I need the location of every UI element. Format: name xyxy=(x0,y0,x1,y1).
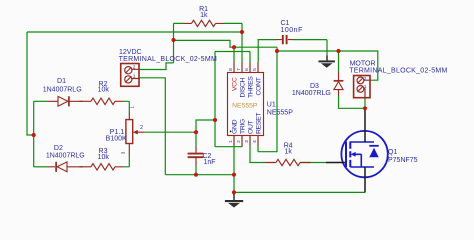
wire OUT to R4 xyxy=(250,146,266,163)
wire CONT / C1 left xyxy=(258,40,276,63)
svg-text:MOTOR: MOTOR xyxy=(350,60,376,67)
junction gnd/source wire xyxy=(232,190,236,194)
svg-text:CONT: CONT xyxy=(256,77,263,95)
junction D3 cathode xyxy=(336,49,340,53)
svg-text:D2: D2 xyxy=(54,145,63,152)
U1 pin stubs bottom xyxy=(234,136,258,147)
svg-text:NE555P: NE555P xyxy=(267,110,293,117)
svg-text:3: 3 xyxy=(244,140,250,143)
svg-text:TERMINAL_BLOCK_02-5MM: TERMINAL_BLOCK_02-5MM xyxy=(119,56,217,63)
wire R2 to pot top xyxy=(123,101,129,112)
wire R1 left lead drop xyxy=(174,23,184,63)
diode D2 xyxy=(47,166,83,168)
ground near C1 xyxy=(326,56,328,61)
svg-text:D1: D1 xyxy=(57,78,66,85)
wire D2-R3 link xyxy=(80,166,84,168)
svg-text:100nF: 100nF xyxy=(281,27,303,34)
wire VCC drop to pin8 xyxy=(233,47,235,62)
svg-text:10k: 10k xyxy=(98,154,110,161)
wire D3 cathode riser xyxy=(338,51,340,72)
resistor R1 xyxy=(192,20,216,26)
svg-text:5: 5 xyxy=(252,68,258,71)
wire C1 right to gnd xyxy=(293,40,328,56)
wire D3 anode to drain node xyxy=(339,96,366,108)
U1 anchor dot xyxy=(230,131,232,133)
junction wiper/C2 xyxy=(194,130,198,134)
wire VCC line xyxy=(174,40,278,47)
svg-text:1k: 1k xyxy=(284,149,292,156)
svg-text:3: 3 xyxy=(121,151,126,154)
junction C2/gnd rail xyxy=(194,173,198,177)
potentiometer P1.1 xyxy=(126,120,133,144)
svg-text:GND: GND xyxy=(232,119,239,134)
wire D2 branch left xyxy=(34,166,47,168)
svg-text:P75NF75: P75NF75 xyxy=(388,157,418,164)
wire left vertical from top rail xyxy=(27,32,34,135)
diode D1 xyxy=(47,100,83,102)
svg-text:1: 1 xyxy=(130,106,135,109)
diode D3 xyxy=(338,72,340,97)
svg-text:2: 2 xyxy=(140,125,143,131)
svg-text:2: 2 xyxy=(133,64,136,70)
junction drain node xyxy=(363,106,367,110)
junction RESET riser xyxy=(275,49,279,53)
svg-text:U1: U1 xyxy=(267,102,276,109)
junction gnd rail/pin1 xyxy=(232,173,236,177)
svg-text:1k: 1k xyxy=(200,12,208,19)
junction wiper riser xyxy=(213,118,217,122)
wire gnd bottom rail xyxy=(165,174,234,176)
svg-text:1N4007RLG: 1N4007RLG xyxy=(43,86,82,93)
svg-text:1N4007RLG: 1N4007RLG xyxy=(46,153,85,160)
svg-text:6: 6 xyxy=(244,68,250,71)
wire R4 to gate xyxy=(300,162,326,164)
terminal block 12VDC xyxy=(121,64,139,87)
svg-text:VCC: VCC xyxy=(232,77,239,91)
wire terminal pin1 to gnd rail xyxy=(140,78,165,175)
wire R1 right lead drop / DISCH pin7 xyxy=(224,23,243,62)
wire DISCH top rail xyxy=(27,31,242,33)
svg-text:THRES: THRES xyxy=(248,76,255,98)
wire C2 bottom link xyxy=(195,166,197,175)
wire 12V+ staircase to terminal pin2 xyxy=(140,63,174,70)
op-amp U1 NE555P box xyxy=(228,73,264,136)
svg-text:1N4007RLG: 1N4007RLG xyxy=(292,90,331,97)
wire D1-R2 link xyxy=(80,100,84,102)
svg-text:TERMINAL_BLOCK_02-5MM: TERMINAL_BLOCK_02-5MM xyxy=(349,67,447,74)
svg-text:2: 2 xyxy=(364,76,367,82)
svg-text:4: 4 xyxy=(252,140,258,143)
resistor R3 xyxy=(91,164,115,170)
junction VCC pin8 xyxy=(232,45,236,49)
svg-text:10k: 10k xyxy=(98,87,110,94)
wire RESET riser xyxy=(258,47,277,152)
svg-text:1: 1 xyxy=(364,84,367,90)
wire VCC to motor pin2 xyxy=(277,51,378,80)
svg-text:B100K: B100K xyxy=(106,135,127,142)
wire THRES line xyxy=(215,52,250,63)
U1 pin stubs top xyxy=(234,63,258,73)
wire source return xyxy=(234,191,365,193)
svg-text:8: 8 xyxy=(228,68,234,71)
terminal block MOTOR xyxy=(354,76,370,98)
junction R1/DISCH xyxy=(240,30,244,34)
junction diode loop xyxy=(32,133,36,137)
svg-text:7: 7 xyxy=(236,68,242,71)
junction 12V+/R1 xyxy=(171,38,175,42)
svg-text:DISCH: DISCH xyxy=(240,77,247,97)
resistor R4 xyxy=(276,159,300,165)
wire wiper line xyxy=(144,120,215,132)
svg-text:OUT: OUT xyxy=(248,120,255,134)
wire THRES-TRIG vertical xyxy=(214,52,216,147)
svg-text:2: 2 xyxy=(236,140,242,143)
svg-text:1: 1 xyxy=(133,74,136,80)
wire D1 branch left xyxy=(34,100,47,102)
wire diode-loop left vertical xyxy=(33,101,35,167)
wire R3 to pot bottom xyxy=(123,156,129,167)
capacitor C2 xyxy=(195,146,197,166)
transistor Q1 xyxy=(341,131,387,177)
svg-text:NE555P: NE555P xyxy=(232,103,258,110)
svg-text:1: 1 xyxy=(228,140,234,143)
svg-text:TRIG: TRIG xyxy=(240,119,247,134)
wire C2 top link xyxy=(195,132,197,146)
resistor R2 xyxy=(91,98,115,104)
wire GND pin1 down xyxy=(233,146,235,193)
wire TRIG link xyxy=(215,146,242,147)
ground below U1 xyxy=(233,192,235,200)
wire motor pin1 drop xyxy=(364,98,366,109)
svg-text:RESET: RESET xyxy=(256,113,263,134)
svg-text:1nF: 1nF xyxy=(204,159,216,166)
svg-text:Q1: Q1 xyxy=(388,149,397,156)
capacitor C1 xyxy=(277,39,293,41)
